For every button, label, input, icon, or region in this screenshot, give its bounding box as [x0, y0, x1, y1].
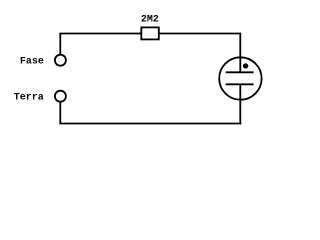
- neon lamp bottom electrode: [226, 83, 254, 85]
- wire: Fase terminal lead up to top rail: [59, 34, 61, 56]
- wire: top rail from Fase corner to lamp corner: [59, 33, 240, 35]
- neon lamp gas dot: [243, 63, 248, 68]
- svg-text:2M2: 2M2: [141, 15, 159, 26]
- wire: bottom rail: [59, 123, 241, 125]
- resistor R1 body: [141, 27, 159, 39]
- wire: lamp top lead down to top electrode: [239, 33, 241, 73]
- wire: Terra terminal lead down to bottom rail: [59, 102, 61, 124]
- terminal Terra (circle): [55, 91, 66, 102]
- neon lamp V1 envelope: [219, 57, 261, 99]
- terminal Fase (circle): [55, 55, 66, 66]
- svg-text:Terra: Terra: [14, 92, 44, 103]
- svg-text:Fase: Fase: [20, 56, 44, 67]
- wire: lamp bottom lead from bottom electrode to bottom rail: [239, 84, 241, 124]
- neon lamp top electrode: [226, 71, 254, 73]
